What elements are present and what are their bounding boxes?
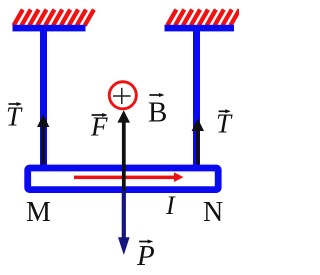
svg-text:P: P: [136, 240, 155, 272]
label T left: [6, 102, 23, 132]
label P: [136, 240, 155, 273]
ceiling bar right: [165, 25, 235, 32]
svg-text:T: T: [6, 102, 23, 132]
svg-text:N: N: [203, 197, 223, 228]
field symbol circle-plus: [109, 82, 136, 109]
current arrow I: [74, 172, 184, 182]
label T right: [216, 109, 233, 139]
weight arrow P: [118, 191, 130, 256]
rod MN: [28, 168, 219, 190]
ceiling hatching right: [167, 10, 239, 26]
label B: [148, 93, 167, 129]
ceiling hatching left: [14, 10, 94, 26]
ceiling bar left: [13, 25, 86, 32]
svg-text:B: B: [148, 97, 167, 129]
label F: [90, 112, 108, 142]
svg-text:M: M: [26, 197, 51, 228]
svg-text:F: F: [90, 112, 108, 142]
svg-text:I: I: [165, 191, 176, 220]
svg-text:T: T: [216, 109, 233, 139]
force arrow F: [117, 110, 130, 190]
tension arrow left: [37, 115, 49, 165]
wire left: [40, 31, 47, 168]
wire right: [193, 31, 200, 168]
tension arrow right: [192, 119, 204, 165]
